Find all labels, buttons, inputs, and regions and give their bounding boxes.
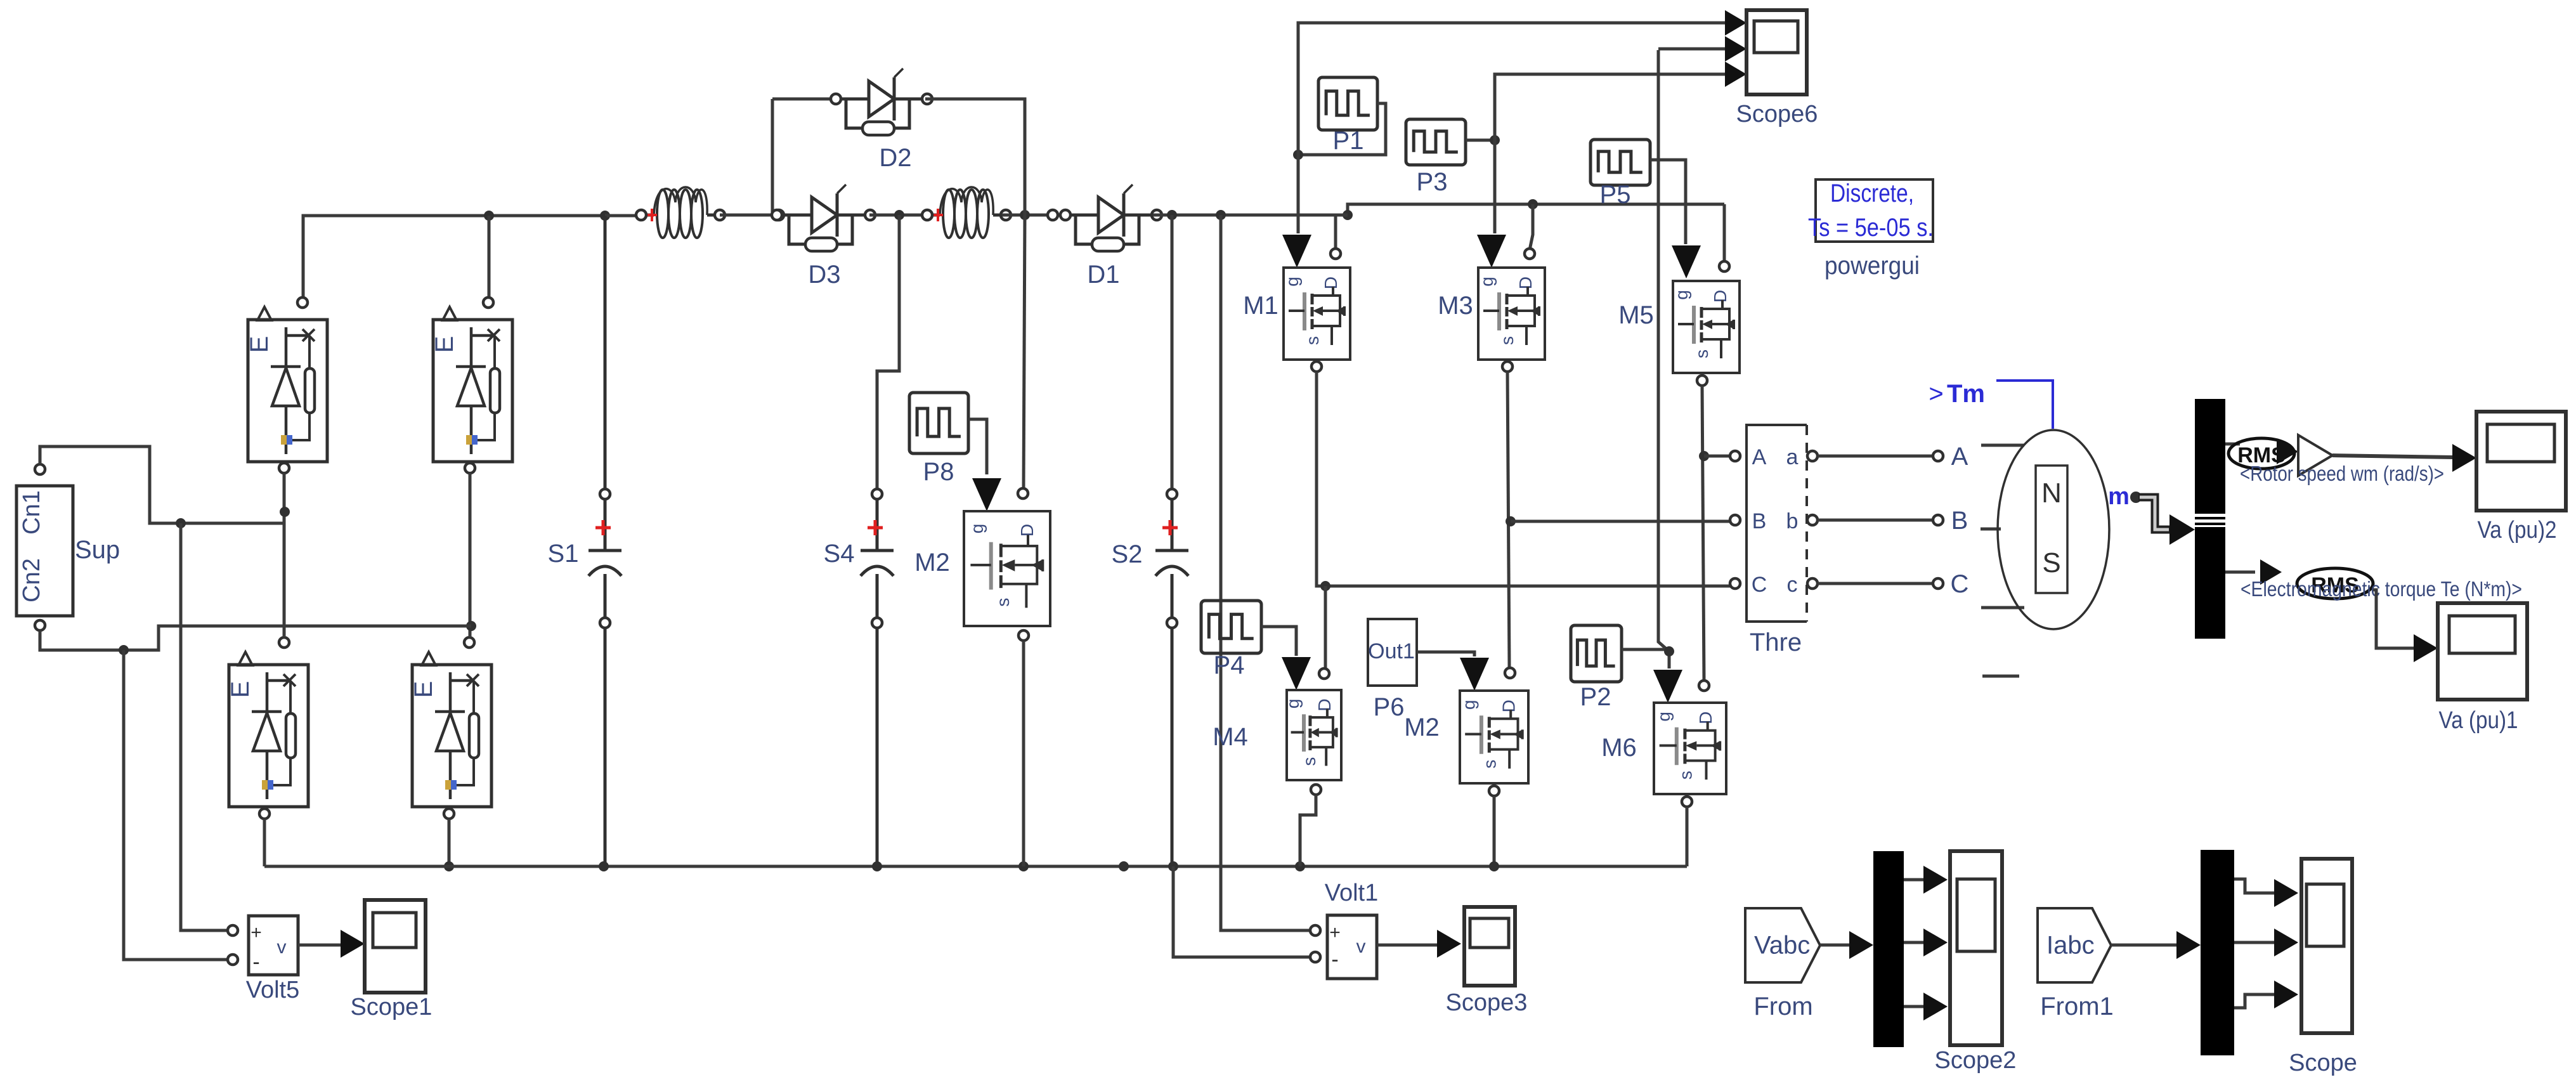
junction P1 riser [1293,150,1303,160]
svg-text:>: > [1929,380,1943,408]
svg-text:Scope3: Scope3 [1446,989,1528,1016]
svg-text:M6: M6 [1601,734,1637,762]
outport Out1 (P6) [1368,619,1417,721]
wire M2L source to bus [1493,796,1496,866]
wire P2 to M6 gate [1622,649,1682,703]
three-phase block Thre [1730,425,1818,656]
svg-text:P8: P8 [923,458,954,486]
machine stub C [1981,606,2024,609]
svg-text:P1: P1 [1333,127,1364,155]
PMSM machine [1998,430,2109,629]
pulse generator P4 [1201,601,1261,679]
svg-text:M1: M1 [1243,292,1278,320]
wire Volt5 to Scope1 [298,930,365,958]
junction S2 bottom [1168,861,1178,871]
junction Sup+ tap on left leg [280,507,290,517]
voltmeter Volt1 [1310,880,1378,979]
wire Thre a to machine A [1818,443,1968,471]
wire L2 to D1 [1002,214,1069,217]
svg-text:s: s [1303,336,1322,345]
wire Sup- lower run [40,626,471,650]
wire Volt1+ long riser [1221,215,1311,930]
scope Scope6 [1736,10,1818,127]
svg-text:<Electromagnetic torque Te (N*: <Electromagnetic torque Te (N*m)> [2241,577,2522,601]
junction S1 top on DC bus [600,211,610,221]
wire L1 to D3 [720,214,779,217]
junction S1 bottom [599,861,609,871]
junction M2 source on bottom bus [1018,861,1029,871]
scope Scope1 [351,900,433,1020]
junction M2 drain / D2 node [1020,210,1030,220]
MOSFET M2 (lower) [1404,668,1528,796]
demux bar 2 [2201,850,2234,1055]
diode D2 [831,68,932,172]
wire IGBT2 top riser [488,216,491,298]
junction Volt5- tap [119,645,129,655]
wire M2 drain riser [1024,215,1025,488]
wire phase A to Thre [1704,455,1733,458]
junction IGBT4 on bottom bus [444,861,454,871]
diode D3 [774,185,875,289]
svg-text:g: g [1283,699,1303,709]
svg-text:s: s [1299,757,1319,766]
junction M4 source on bottom bus [1295,861,1305,871]
svg-text:b: b [1786,509,1799,533]
svg-text:s: s [1497,336,1517,345]
svg-text:Scope2: Scope2 [1935,1047,2017,1074]
scope Scope3 [1446,907,1528,1016]
svg-text:D: D [1516,277,1535,289]
svg-text:v: v [1356,936,1366,957]
svg-text:D1: D1 [1087,261,1119,289]
wire demux2 out1 [2234,879,2298,907]
svg-text:D: D [1315,698,1334,711]
from tag Iabc [2038,908,2114,1020]
RMS block 2 [2297,568,2373,599]
wire right leg mid (IGBT2 to IGBT4) [469,473,472,637]
wire D2 left top [772,98,837,101]
wire Iabc to demux2 [2111,931,2201,959]
svg-text:g: g [1282,277,1302,287]
machine stub A [1981,444,2024,447]
wire P8 to M2 gate [968,419,1001,511]
voltmeter Volt5 [228,916,299,1003]
junction Volt5+ tap [176,518,186,528]
wire Thre b to machine B [1818,507,1968,535]
MOSFET M2 (buck) [914,488,1050,641]
svg-text:S4: S4 [824,540,855,568]
battery Sup [16,464,120,630]
wire D1 to inverter bus [1153,214,1348,217]
port D2 branch node [772,210,782,220]
junction S4 bottom [872,861,882,871]
svg-text:Tm: Tm [1947,380,1985,408]
IGBT arm 3 (bottom-left) [226,637,308,819]
junction Volt1+ riser [1216,210,1226,220]
wire P4 to M4 gate [1261,627,1311,690]
signal label torque [2241,577,2522,601]
svg-text:v: v [277,937,287,958]
svg-text:<Rotor speed wm (rad/s)>: <Rotor speed wm (rad/s)> [2240,462,2444,485]
capacitor S4 [824,489,894,866]
junction P2/Scope6 node [1664,646,1674,656]
svg-text:D2: D2 [879,144,911,172]
svg-text:D: D [1696,712,1715,724]
svg-text:g: g [1672,290,1691,300]
svg-text:g: g [1654,712,1674,722]
svg-text:P6: P6 [1374,693,1405,721]
svg-text:Cn1: Cn1 [18,490,45,535]
svg-text:E: E [226,681,254,698]
wire M5 source to M6 drain [1702,386,1704,681]
wire M1 source to phase bus [1317,372,1735,586]
svg-text:D: D [1710,290,1730,303]
port node mid [1048,210,1058,220]
wire M1 drain stub [1336,215,1348,250]
wire M4 source to bus [1300,795,1316,866]
wire Sup+ to left leg [40,446,285,523]
svg-text:c: c [1787,573,1798,597]
svg-text:powergui: powergui [1825,252,1920,280]
MOSFET M4 [1213,668,1341,795]
wire P1 out loop [1298,103,1386,155]
wire phase B to Thre [1511,520,1733,523]
svg-text:Thre: Thre [1750,629,1802,656]
powergui block [1808,179,1934,280]
svg-text:M4: M4 [1213,723,1248,751]
wire Vabc to demux [1820,931,1873,959]
svg-text:Vabc: Vabc [1754,932,1810,960]
svg-text:B: B [1951,507,1968,535]
svg-text:g: g [967,524,987,534]
wire demux1 out3 [1904,993,1948,1020]
wire M3 drain stub [1530,204,1533,250]
svg-text:C: C [1752,573,1767,597]
diode D1 [1060,185,1162,289]
wire demux2 out3 [2234,981,2298,1008]
junction Sup- tap on right leg [466,621,476,631]
wire demux1 out1 [1904,866,1948,894]
wire D2 left branch [771,99,774,215]
wire P1 riser to Scope6 [1298,10,1747,155]
wire Volt1 to Scope3 [1377,930,1461,958]
svg-text:A: A [1951,443,1968,471]
svg-text:D: D [1321,277,1341,289]
wire M4 drain stub [1324,586,1327,668]
pulse generator P2 [1571,625,1622,711]
wire Scope6 line2 long riser [1658,50,1669,651]
pulse generator P5 [1590,140,1650,209]
wire M6 source to bus [1686,807,1689,866]
svg-text:Discrete,: Discrete, [1830,179,1914,207]
scope Va (pu)1 [2438,603,2527,734]
svg-text:E: E [431,336,459,353]
svg-text:M5: M5 [1618,301,1654,329]
machine stub B [1981,528,2001,531]
wire P5 out [1650,160,1701,278]
IGBT arm 1 (top-left) [245,297,327,473]
wire S2 riser [1171,215,1174,490]
svg-text:S1: S1 [548,540,579,568]
svg-text:+: + [1329,922,1341,943]
capacitor S1 [548,216,621,866]
svg-text:N: N [2041,478,2062,509]
scope Scope [2289,859,2357,1076]
svg-text:Ts = 5e-05 s.: Ts = 5e-05 s. [1808,214,1934,242]
wire DC bus S1 to L1 [605,214,642,218]
svg-text:P4: P4 [1214,651,1245,679]
svg-text:Out1: Out1 [1368,639,1415,663]
svg-text:M2: M2 [1404,714,1440,741]
svg-text:S: S [2042,547,2060,578]
junction IGBT2 riser on top bus [484,211,494,221]
capacitor S2 [1112,489,1188,866]
MOSFET M1 [1243,249,1350,372]
machine stub N [1982,675,2019,678]
MOSFET M5 [1618,261,1740,386]
svg-text:Scope1: Scope1 [351,994,433,1020]
svg-text:A: A [1752,445,1767,469]
wire P3 out [1466,139,1495,142]
svg-text:g: g [1477,277,1497,287]
svg-text:-: - [252,950,259,974]
output label m [2108,483,2142,510]
junction phase B tap [1506,516,1516,526]
signal label rotor speed [2240,462,2444,485]
gain triangle [2298,435,2332,476]
svg-text:Scope: Scope [2289,1050,2357,1076]
wire M2 source to bus [1022,641,1025,866]
wire bottom DC return bus [264,865,1687,868]
IGBT arm 4 (bottom-right) [410,637,491,819]
svg-text:m: m [2108,483,2130,510]
svg-text:Va (pu)2: Va (pu)2 [2478,517,2557,544]
wire Volt5 - sense [124,650,228,960]
svg-text:g: g [1459,700,1479,710]
wire demux2 out2 [2234,929,2298,956]
svg-text:M2: M2 [914,549,950,577]
svg-text:E: E [245,336,273,353]
svg-text:From: From [1753,993,1812,1020]
junction M3 drain [1528,199,1538,209]
svg-text:Va (pu)1: Va (pu)1 [2439,707,2518,734]
wire IGBT4 bottom to bus [448,819,451,866]
inductor L2 [922,187,1011,238]
wire inverter DC bus step [1348,204,1724,215]
scope Scope2 [1935,851,2017,1074]
junction M1 drain [1343,210,1353,220]
wire top DC bus (H-bridge top rail) [303,216,642,298]
IGBT arm 2 (top-right) [431,297,512,473]
junction S4 riser [894,210,904,220]
svg-text:s: s [1480,760,1500,769]
svg-text:a: a [1786,445,1799,469]
wire RMS2 to Va(pu)1 [2373,590,2438,662]
svg-text:E: E [410,681,438,698]
wire IGBT3 bottom to bus [263,819,266,866]
wire demux1 out2 [1904,929,1948,956]
svg-text:s: s [993,598,1013,607]
wire selector to RMS2 [2225,559,2282,585]
junction M4 drain stub [1320,581,1330,591]
wire Scope6 line2 head [1658,36,1747,62]
junction P3 riser [1490,135,1500,145]
pulse generator P3 [1406,119,1466,196]
wire gain to Va(pu)2 [2332,444,2476,472]
wire left leg mid (IGBT1 to IGBT3) [283,473,286,637]
wire P1 to M1 gate [1282,155,1311,268]
svg-text:Cn2: Cn2 [18,558,45,603]
wire M5 drain stub [1723,204,1726,261]
bus selector bar [2195,399,2225,639]
wire Thre c to machine C [1818,570,1968,598]
svg-text:+: + [250,922,262,943]
from tag Vabc [1745,908,1820,1020]
RMS block 1 [2228,438,2298,469]
wire Tm blue [1996,381,2053,429]
wire S4 riser [877,215,899,490]
svg-text:-: - [1331,948,1338,972]
junction M2L source on bus [1489,861,1499,871]
svg-text:D3: D3 [808,261,840,289]
wire P3 riser to Scope6 [1495,62,1747,140]
svg-text:P2: P2 [1580,683,1611,711]
svg-text:D: D [1499,700,1518,712]
junction S2 riser [1167,210,1177,220]
svg-text:B: B [1752,509,1767,533]
wire Out1 to M2L gate [1417,652,1489,691]
wire D3 to L2 [869,214,931,217]
pulse generator P1 [1318,77,1377,155]
junction aux on bottom bus [1119,861,1129,871]
demux bar 1 [1873,851,1904,1047]
wire M3 source to M2L drain [1507,372,1509,668]
svg-text:Scope6: Scope6 [1736,101,1818,127]
svg-text:From1: From1 [2040,993,2114,1020]
svg-text:S2: S2 [1112,540,1143,568]
svg-text:P3: P3 [1417,168,1448,196]
scope Va (pu)2 [2476,412,2566,544]
svg-text:P5: P5 [1600,181,1631,209]
wire Volt5 + sense [181,523,228,930]
svg-text:s: s [1676,771,1696,779]
svg-text:M3: M3 [1438,292,1473,320]
input label Tm [1929,380,1985,408]
svg-text:Volt5: Volt5 [246,977,300,1003]
wire selector to RMS1 [2225,443,2240,446]
svg-text:Iabc: Iabc [2046,932,2095,960]
wire P3 to M3 gate [1477,140,1506,268]
junction phase A tap [1699,451,1709,461]
inductor L1 [636,187,725,238]
MOSFET M6 [1601,681,1726,807]
svg-text:D: D [1017,524,1037,537]
svg-text:C: C [1951,570,1969,598]
wire D2 right branch [925,99,1025,215]
svg-text:s: s [1692,349,1712,358]
pulse generator P8 [909,393,968,486]
wire m bus (thick) [2138,497,2195,545]
svg-text:Volt1: Volt1 [1325,880,1379,906]
svg-text:Sup: Sup [75,536,120,564]
wire Volt1- sense [1173,866,1311,957]
MOSFET M3 [1438,249,1545,372]
